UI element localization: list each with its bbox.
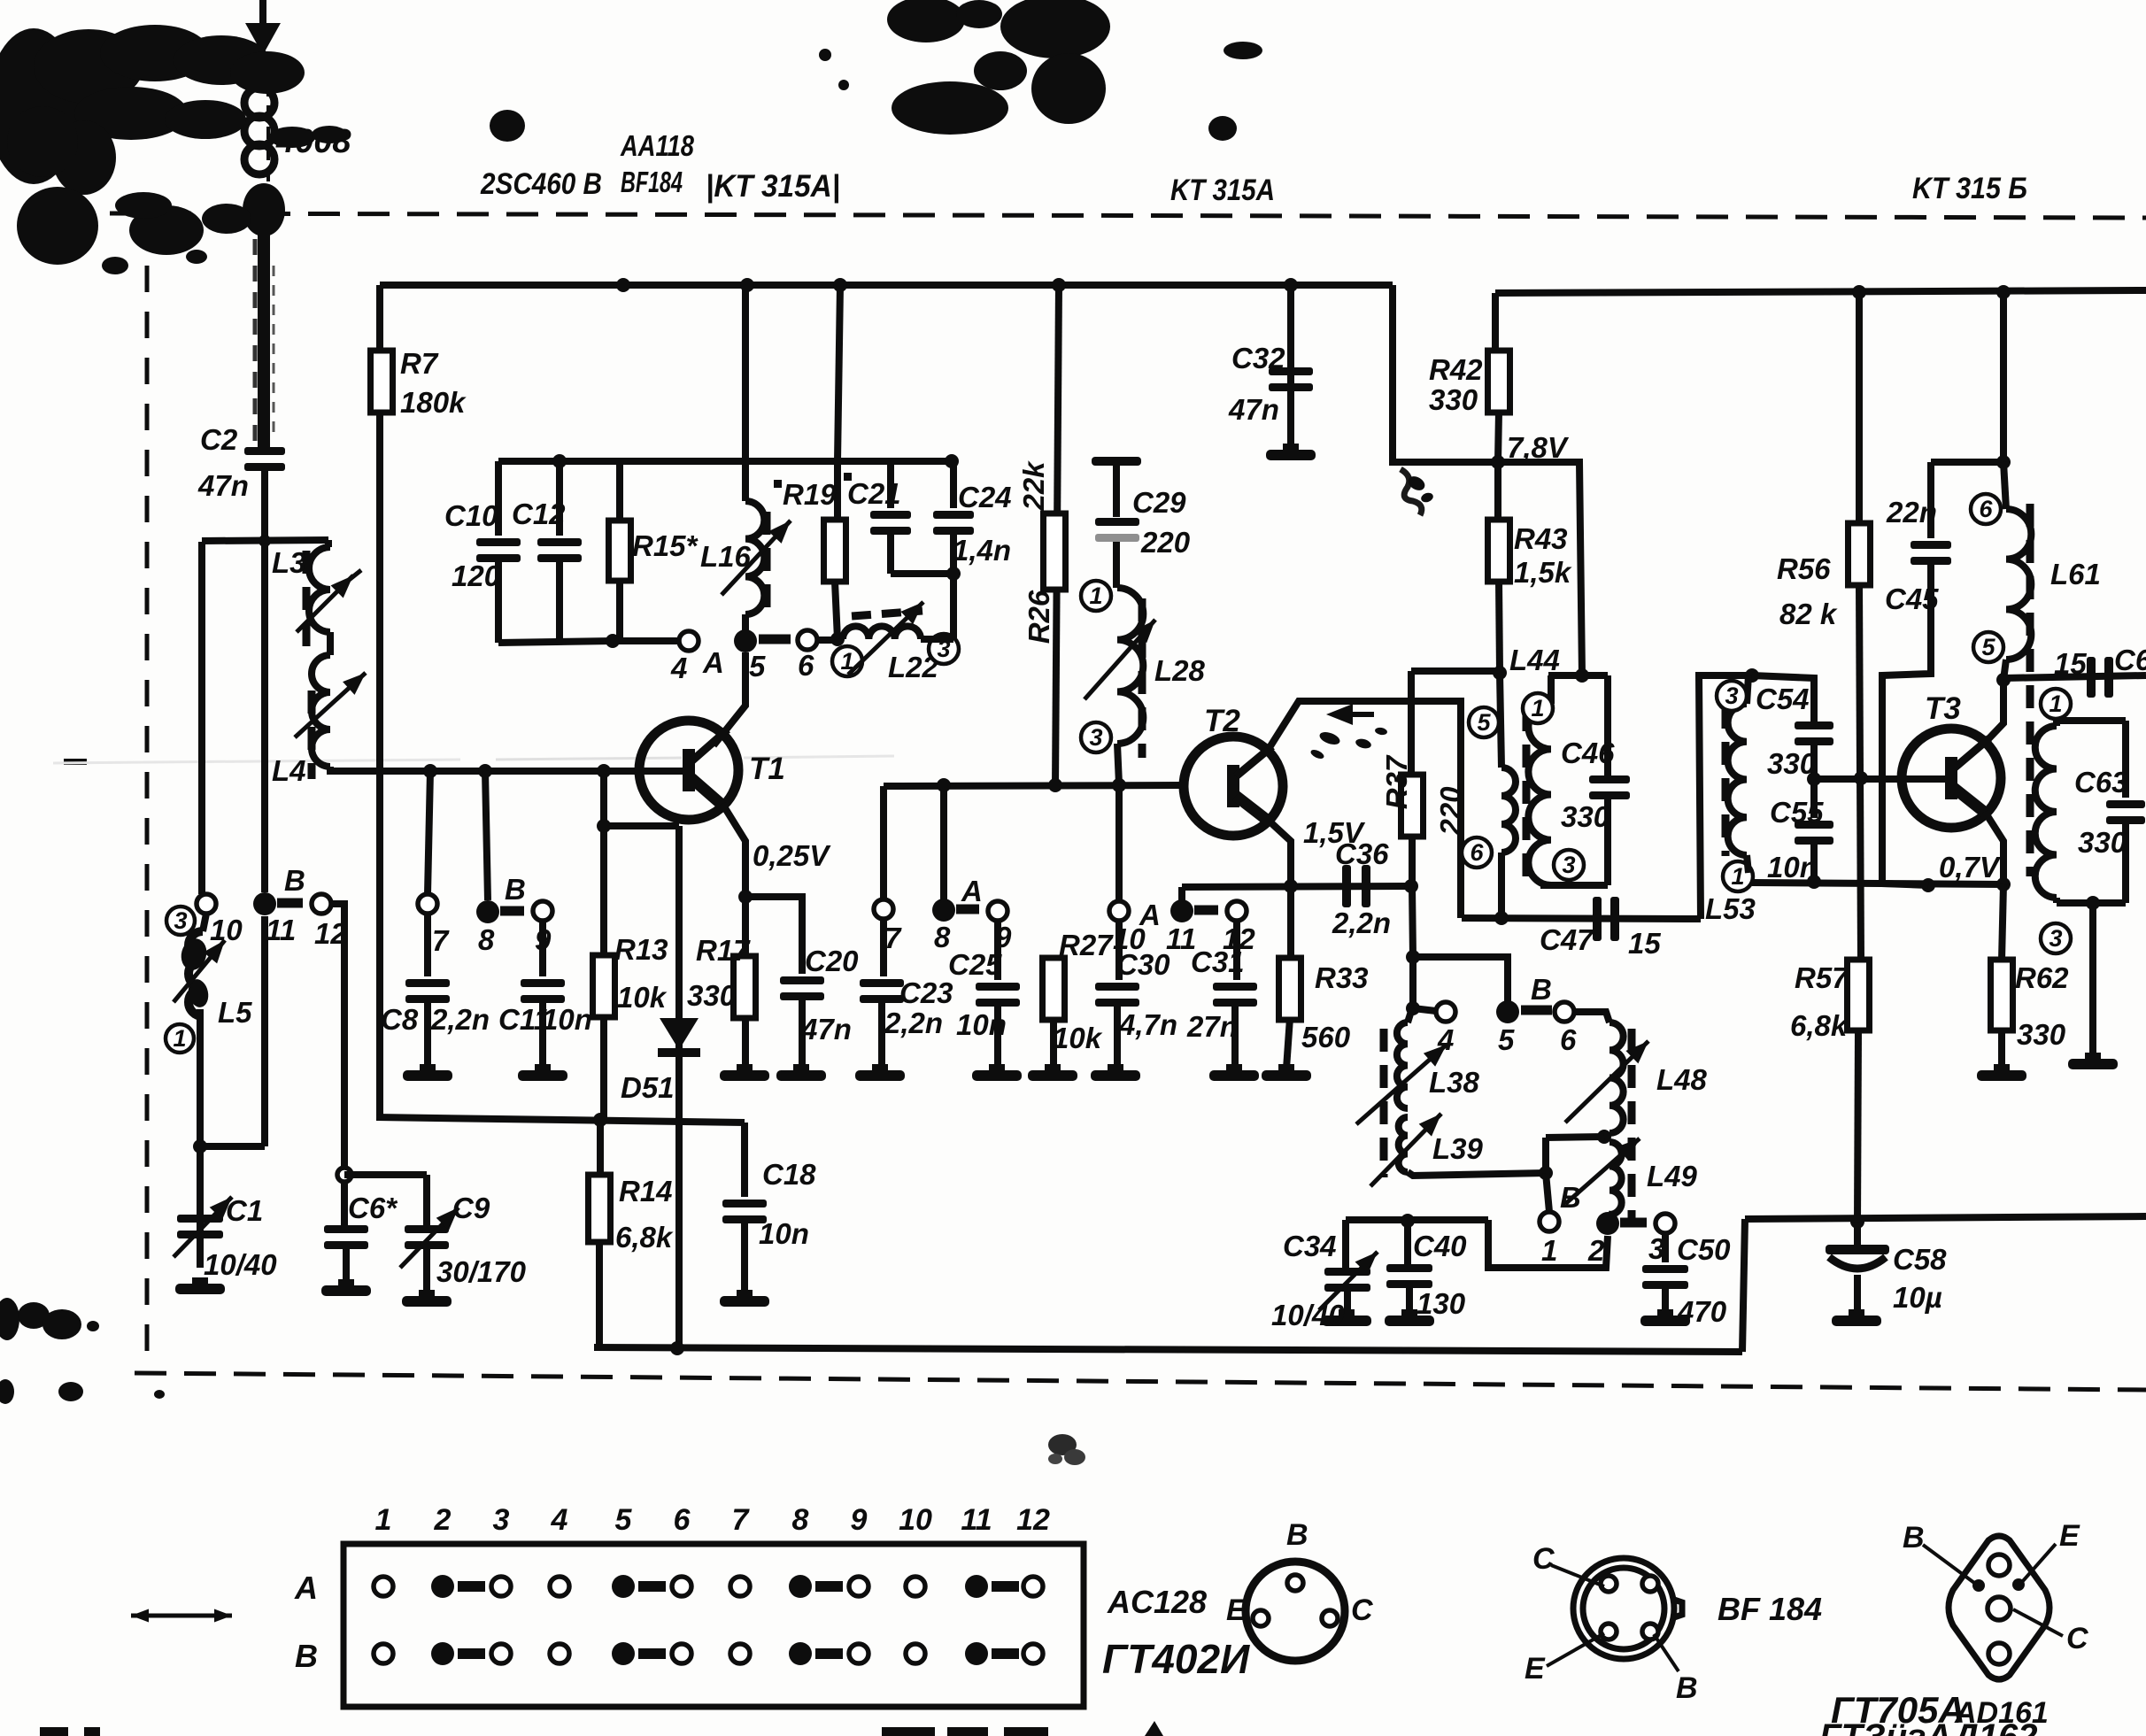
svg-text:6: 6 [1979, 496, 1993, 522]
svg-text:C34: C34 [1283, 1230, 1337, 1262]
svg-text:C: C [2066, 1622, 2088, 1655]
svg-text:10/40: 10/40 [204, 1248, 277, 1281]
svg-text:330: 330 [1429, 383, 1478, 416]
svg-text:A: A [702, 646, 724, 679]
svg-text:R26: R26 [1023, 590, 1055, 644]
svg-text:2SC460 B: 2SC460 B [480, 167, 602, 201]
svg-text:0,25V: 0,25V [753, 839, 831, 872]
svg-text:A: A [294, 1570, 318, 1606]
svg-text:5: 5 [749, 650, 766, 683]
svg-text:C: C [1351, 1593, 1373, 1627]
svg-text:L48: L48 [1656, 1063, 1708, 1096]
svg-text:L49: L49 [1647, 1160, 1698, 1192]
svg-text:10/40: 10/40 [1271, 1299, 1345, 1331]
svg-text:C2: C2 [200, 423, 238, 456]
svg-text:10µ: 10µ [1893, 1281, 1942, 1314]
svg-text:T1: T1 [749, 752, 785, 786]
svg-text:47n: 47n [1228, 393, 1279, 426]
svg-text:82 k: 82 k [1779, 598, 1838, 630]
svg-text:R19: R19 [783, 478, 837, 511]
svg-text:5: 5 [1981, 634, 1995, 660]
svg-text:C55: C55 [1770, 796, 1824, 829]
svg-text:R17: R17 [696, 934, 751, 967]
svg-text:C32: C32 [1231, 342, 1285, 374]
svg-text:C64: C64 [2114, 644, 2146, 676]
svg-text:R27: R27 [1059, 929, 1114, 961]
svg-text:C25: C25 [948, 948, 1002, 981]
svg-text:C29: C29 [1132, 486, 1186, 519]
svg-text:C10: C10 [444, 499, 498, 532]
svg-text:6,8k: 6,8k [615, 1221, 674, 1254]
svg-text:1,5k: 1,5k [1514, 556, 1572, 589]
svg-text:T2: T2 [1204, 704, 1240, 738]
svg-text:KT 315 Б: KT 315 Б [1912, 172, 2027, 205]
svg-text:3: 3 [1089, 724, 1102, 751]
svg-text:120: 120 [452, 559, 501, 592]
svg-text:330: 330 [687, 979, 737, 1012]
svg-text:6: 6 [1470, 839, 1484, 866]
svg-text:4: 4 [551, 1503, 568, 1537]
svg-text:A: A [961, 875, 983, 907]
svg-text:ГТЗӥгАД162: ГТЗӥгАД162 [1819, 1717, 2037, 1736]
svg-text:C24: C24 [958, 481, 1012, 513]
svg-text:1: 1 [375, 1503, 392, 1537]
svg-text:4,7n: 4,7n [1118, 1008, 1177, 1041]
svg-text:C46: C46 [1561, 737, 1615, 769]
svg-text:330: 330 [1767, 747, 1817, 780]
svg-text:15: 15 [2054, 647, 2087, 680]
svg-text:330: 330 [1561, 800, 1610, 833]
svg-text:C54: C54 [1756, 683, 1810, 715]
svg-text:R13: R13 [614, 933, 668, 966]
svg-text:8: 8 [478, 923, 495, 956]
svg-text:1: 1 [1089, 583, 1102, 609]
svg-text:4: 4 [670, 652, 687, 684]
svg-text:KT 315A: KT 315A [1170, 174, 1275, 207]
svg-text:L53: L53 [1705, 892, 1756, 925]
svg-text:R56: R56 [1777, 552, 1831, 585]
svg-text:L38: L38 [1429, 1066, 1480, 1099]
svg-text:L4: L4 [272, 754, 306, 787]
svg-text:B: B [1531, 973, 1552, 1006]
svg-text:BF 184: BF 184 [1718, 1591, 1822, 1627]
svg-text:130: 130 [1417, 1287, 1466, 1320]
svg-text:R37: R37 [1380, 754, 1413, 809]
svg-text:10: 10 [899, 1503, 932, 1537]
svg-text:R43: R43 [1514, 522, 1568, 555]
svg-text:10n: 10n [759, 1217, 809, 1250]
svg-text:9: 9 [851, 1503, 868, 1537]
svg-text:AA118: AA118 [620, 129, 694, 162]
svg-text:5: 5 [615, 1503, 633, 1537]
svg-text:C31: C31 [1191, 945, 1245, 978]
svg-text:3: 3 [493, 1503, 510, 1537]
svg-text:3: 3 [2049, 925, 2062, 952]
svg-text:ГТ402И: ГТ402И [1102, 1636, 1250, 1682]
svg-text:2,2n: 2,2n [1332, 907, 1391, 939]
svg-text:7: 7 [432, 924, 450, 957]
svg-text:1: 1 [1731, 863, 1744, 890]
svg-text:1: 1 [2049, 691, 2062, 717]
svg-text:470: 470 [1677, 1295, 1727, 1328]
svg-text:22k: 22k [1017, 460, 1050, 512]
svg-text:C36: C36 [1335, 837, 1389, 870]
svg-text:180k: 180k [400, 386, 467, 419]
svg-text:B: B [1676, 1671, 1698, 1705]
svg-text:2: 2 [434, 1503, 452, 1537]
svg-text:5: 5 [1498, 1023, 1515, 1056]
svg-text:L3: L3 [272, 546, 306, 579]
svg-text:R42: R42 [1429, 353, 1483, 386]
svg-text:L28: L28 [1154, 654, 1206, 687]
svg-text:330: 330 [2078, 826, 2127, 859]
svg-text:T3: T3 [1925, 691, 1961, 726]
svg-text:C18: C18 [762, 1158, 816, 1191]
svg-text:1,4n: 1,4n [953, 534, 1011, 567]
svg-text:D51: D51 [621, 1071, 675, 1104]
svg-text:5: 5 [1477, 709, 1491, 736]
svg-text:L5: L5 [218, 996, 252, 1029]
svg-text:AC128: AC128 [1107, 1584, 1207, 1620]
svg-text:L39: L39 [1432, 1132, 1484, 1165]
svg-text:C1: C1 [226, 1194, 263, 1227]
svg-text:6,8k: 6,8k [1790, 1009, 1849, 1042]
svg-text:R7: R7 [400, 347, 439, 380]
svg-text:R57: R57 [1795, 961, 1849, 994]
svg-text:7: 7 [732, 1503, 751, 1537]
svg-text:BF184: BF184 [621, 166, 683, 198]
svg-text:C21: C21 [847, 477, 901, 510]
svg-text:11: 11 [266, 914, 296, 946]
svg-text:C40: C40 [1413, 1230, 1467, 1262]
svg-text:L44: L44 [1509, 644, 1560, 676]
svg-text:C23: C23 [899, 976, 953, 1009]
svg-text:3: 3 [1562, 852, 1575, 878]
svg-text:L61: L61 [2050, 558, 2101, 590]
svg-text:6: 6 [1560, 1023, 1577, 1056]
svg-text:C9: C9 [452, 1192, 490, 1224]
svg-text:3: 3 [1725, 683, 1738, 709]
svg-text:R14: R14 [619, 1175, 673, 1207]
svg-text:C12: C12 [512, 498, 566, 530]
svg-text:30/170: 30/170 [436, 1255, 527, 1288]
svg-text:C47: C47 [1540, 923, 1594, 956]
svg-text:560: 560 [1301, 1021, 1351, 1053]
svg-text:27n: 27n [1186, 1010, 1238, 1043]
svg-text:8: 8 [792, 1503, 809, 1537]
svg-text:C50: C50 [1677, 1233, 1731, 1266]
svg-text:220: 220 [1140, 526, 1191, 559]
svg-text:R62: R62 [2015, 961, 2069, 994]
svg-text:1: 1 [1541, 1234, 1557, 1267]
svg-text:0,7V: 0,7V [1939, 851, 2002, 883]
svg-text:B: B [295, 1638, 318, 1674]
svg-text:R15*: R15* [632, 529, 699, 562]
svg-text:10n: 10n [956, 1008, 1007, 1041]
svg-text:C6*: C6* [348, 1192, 398, 1224]
svg-text:C58: C58 [1893, 1243, 1947, 1276]
svg-text:B: B [1903, 1521, 1925, 1555]
svg-text:2: 2 [1587, 1234, 1605, 1267]
svg-text:47n: 47n [800, 1013, 852, 1045]
svg-text:11: 11 [961, 1503, 992, 1537]
svg-text:3: 3 [174, 907, 187, 934]
svg-text:C30: C30 [1116, 948, 1170, 981]
svg-text:B: B [505, 873, 526, 906]
svg-text:12: 12 [1016, 1503, 1050, 1537]
svg-text:E: E [1525, 1652, 1546, 1686]
svg-text:C20: C20 [805, 945, 859, 977]
svg-text:C8: C8 [381, 1003, 419, 1036]
svg-text:2,2n: 2,2n [884, 1007, 943, 1039]
svg-text:A: A [1139, 899, 1161, 931]
svg-text:10n: 10n [542, 1003, 592, 1036]
svg-text:C: C [1532, 1542, 1555, 1576]
svg-text:10k: 10k [1053, 1022, 1103, 1054]
svg-text:B: B [284, 864, 305, 897]
svg-text:1: 1 [1531, 695, 1544, 721]
svg-text:E: E [2059, 1519, 2080, 1553]
svg-text:220: 220 [1434, 786, 1467, 837]
svg-text:10k: 10k [617, 981, 668, 1014]
svg-text:2,2n: 2,2n [430, 1003, 490, 1036]
svg-text:1: 1 [173, 1025, 186, 1052]
svg-text:330: 330 [2017, 1018, 2066, 1051]
svg-text:B: B [1286, 1518, 1308, 1552]
svg-text:L16: L16 [700, 540, 752, 573]
svg-text:E: E [1226, 1593, 1247, 1627]
svg-text:6: 6 [674, 1503, 691, 1537]
svg-text:15: 15 [1628, 927, 1661, 960]
svg-text:|KT 315A|: |KT 315A| [706, 169, 840, 204]
svg-text:6: 6 [798, 649, 814, 682]
svg-text:C63: C63 [2074, 766, 2128, 799]
svg-text:R33: R33 [1315, 961, 1369, 994]
svg-text:22n: 22n [1886, 496, 1937, 529]
svg-text:47n: 47n [197, 469, 249, 502]
